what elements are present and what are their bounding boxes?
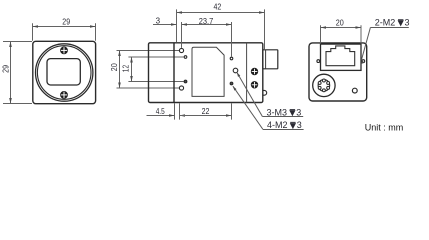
svg-text:3: 3: [296, 107, 301, 117]
svg-text:3: 3: [405, 17, 410, 27]
svg-text:23.7: 23.7: [199, 17, 214, 26]
svg-text:3: 3: [156, 17, 161, 26]
svg-text:2-M2: 2-M2: [375, 17, 396, 27]
svg-text:3: 3: [297, 120, 302, 130]
svg-text:4-M2: 4-M2: [267, 120, 288, 130]
svg-text:29: 29: [62, 17, 70, 26]
svg-text:20: 20: [336, 19, 344, 28]
svg-text:4.5: 4.5: [156, 107, 165, 116]
svg-text:29: 29: [1, 65, 10, 73]
svg-text:22: 22: [202, 107, 210, 116]
svg-text:42: 42: [214, 3, 222, 12]
svg-text:Unit : mm: Unit : mm: [365, 122, 404, 132]
svg-text:12: 12: [122, 64, 131, 72]
svg-text:3-M3: 3-M3: [267, 107, 288, 117]
svg-text:20: 20: [110, 63, 119, 71]
